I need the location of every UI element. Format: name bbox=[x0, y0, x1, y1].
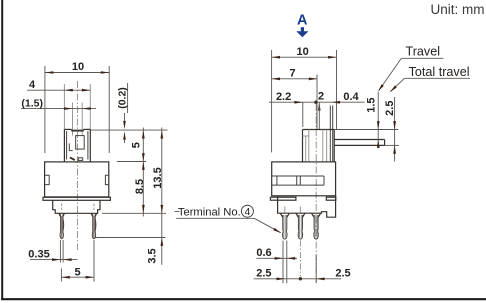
svg-text:4: 4 bbox=[244, 206, 250, 218]
svg-text:10: 10 bbox=[72, 61, 84, 73]
svg-text:3.5: 3.5 bbox=[147, 248, 159, 263]
dim 2.5 left arrow bbox=[277, 278, 285, 281]
lower housing bbox=[278, 196, 336, 217]
border frame left bbox=[1, 0, 3, 300]
dims 2.2 / 2 / 0.4 leader line bbox=[269, 101, 365, 103]
terminal flares bbox=[59, 214, 60, 217]
svg-text:Total travel: Total travel bbox=[409, 65, 470, 79]
svg-text:Terminal No.: Terminal No. bbox=[178, 206, 241, 218]
centerline vertical bbox=[76, 81, 78, 250]
svg-text:5: 5 bbox=[74, 266, 80, 278]
plunger top reference line bbox=[90, 129, 167, 131]
pin centerline stubs bbox=[284, 207, 286, 213]
dim 0.35 leader bbox=[30, 259, 78, 261]
dim 10 extension lines bbox=[44, 66, 46, 153]
lower housing bbox=[53, 200, 100, 213]
dim 0.6 leader bbox=[256, 257, 297, 259]
dim 0.4 reference pair above cap bbox=[329, 106, 331, 130]
svg-text:2.5: 2.5 bbox=[384, 101, 396, 116]
dim 1.5 line bbox=[377, 92, 379, 148]
shaft cap top bbox=[303, 129, 335, 131]
border frame bottom bbox=[1, 298, 486, 300]
dim 10 line bbox=[272, 56, 337, 58]
svg-text:8.5: 8.5 bbox=[134, 179, 146, 194]
dim 2.5 line bbox=[394, 97, 396, 162]
plunger inner walls bbox=[66, 131, 68, 160]
svg-text:1.5: 1.5 bbox=[366, 97, 378, 112]
node dot on centerline bbox=[314, 101, 317, 104]
dim (1.5) extension lines bbox=[72, 103, 74, 136]
dim line inner (5 / 8.5) bbox=[142, 128, 144, 217]
plunger step bbox=[68, 143, 70, 150]
pin3 solid extension bbox=[315, 255, 317, 283]
body side notch right bbox=[105, 175, 108, 184]
svg-text:2: 2 bbox=[318, 90, 324, 102]
dim 2.5 right arrow bbox=[316, 278, 324, 281]
terminal pin right bbox=[92, 214, 95, 239]
dim 2.2 tick line bbox=[302, 102, 304, 127]
terminal pin 2 bbox=[296, 213, 298, 217]
dim 0.6 extension lines bbox=[282, 241, 284, 284]
dim 7 line bbox=[272, 78, 318, 80]
svg-text:0.35: 0.35 bbox=[28, 249, 49, 261]
svg-text:0.4: 0.4 bbox=[343, 91, 359, 103]
svg-text:(1.5): (1.5) bbox=[21, 97, 43, 109]
terminal pin 1 bbox=[280, 213, 282, 217]
base plate bbox=[43, 197, 110, 200]
terminal center dashes in housing bbox=[61, 204, 63, 212]
svg-text:Unit: mm: Unit: mm bbox=[431, 2, 485, 17]
svg-text:2.5: 2.5 bbox=[256, 268, 271, 280]
dims 2.5 / 2.5 bottom line bbox=[254, 278, 342, 280]
dim (0.2) upper arrow bbox=[124, 113, 126, 123]
node dot pin2 bbox=[299, 277, 302, 280]
plunger window bbox=[76, 136, 85, 150]
right dims: extension lines bbox=[117, 161, 146, 163]
dim 5 bottom line bbox=[61, 276, 94, 278]
terminal pin left bbox=[60, 214, 63, 239]
svg-text:4: 4 bbox=[29, 79, 36, 91]
dim 2.2 arrow bbox=[294, 101, 302, 104]
svg-text:7: 7 bbox=[290, 67, 296, 79]
dim 4 line bbox=[27, 89, 90, 91]
body outline bbox=[45, 162, 109, 197]
travel top reference line bbox=[334, 129, 398, 131]
centerline vertical bbox=[315, 104, 317, 283]
dim 4 extension lines bbox=[63, 84, 65, 130]
dim (0.2) underline bbox=[127, 83, 129, 113]
svg-text:A: A bbox=[297, 13, 308, 29]
body side notch left bbox=[45, 175, 50, 184]
dim 0.35 extension lines bbox=[59, 240, 61, 263]
svg-text:13.5: 13.5 bbox=[152, 167, 164, 188]
pin2 centerline extension bbox=[299, 241, 301, 277]
dim 10 extension lines bbox=[271, 50, 273, 152]
dim 0.4 arrow bbox=[332, 101, 340, 104]
body slot band bbox=[272, 175, 324, 177]
plunger outline bbox=[64, 128, 71, 130]
svg-text:5: 5 bbox=[131, 142, 143, 148]
shaft cap left edge bbox=[302, 130, 304, 162]
shaft ledge bbox=[303, 135, 309, 137]
plunger feet bbox=[70, 157, 75, 160]
svg-text:(0.2): (0.2) bbox=[116, 87, 128, 109]
dim 7 extension line bbox=[316, 75, 318, 130]
dim 2 arrow bbox=[318, 102, 321, 110]
total travel bottom reference line bbox=[385, 144, 399, 146]
svg-text:2.2: 2.2 bbox=[276, 91, 291, 103]
lever bar bbox=[334, 139, 384, 141]
base plate bars bbox=[270, 197, 296, 200]
svg-text:2.5: 2.5 bbox=[335, 268, 350, 280]
shaft internal lines bbox=[308, 130, 310, 162]
terminal pin 3 bbox=[312, 213, 314, 217]
svg-text:0.6: 0.6 bbox=[256, 247, 271, 259]
svg-text:Travel: Travel bbox=[406, 45, 441, 59]
body outline bbox=[272, 162, 336, 196]
shaft cap right edge bbox=[333, 130, 335, 162]
dim (1.5) line bbox=[21, 108, 96, 110]
dim line outer (13.5 / 3.5) bbox=[161, 128, 163, 265]
dim (0.2) lower arrow bbox=[124, 138, 126, 143]
svg-text:10: 10 bbox=[296, 46, 308, 58]
dim 5 bottom extension lines bbox=[60, 269, 62, 282]
dim 10 line bbox=[45, 72, 109, 74]
